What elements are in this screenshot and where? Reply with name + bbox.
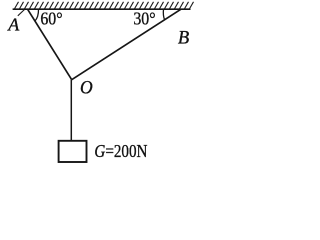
svg-text:60°: 60° [40,9,62,29]
svg-text:G=200N: G=200N [94,141,147,162]
svg-text:B: B [178,29,189,49]
svg-text:O: O [80,77,93,98]
svg-text:30°: 30° [133,9,155,29]
svg-text:A: A [7,15,20,35]
